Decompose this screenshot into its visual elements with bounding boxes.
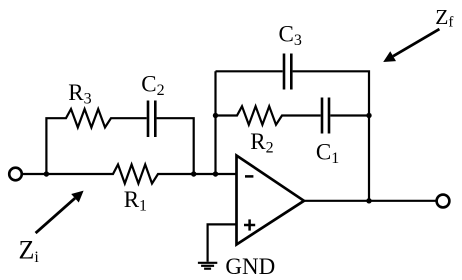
svg-text:C1: C1 xyxy=(316,140,339,168)
svg-text:R3: R3 xyxy=(68,80,91,108)
svg-text:Zi: Zi xyxy=(19,236,40,267)
svg-text:C2: C2 xyxy=(141,71,164,99)
svg-text:Zf: Zf xyxy=(435,5,453,31)
svg-text:GND: GND xyxy=(225,254,275,279)
svg-text:R1: R1 xyxy=(124,187,147,215)
svg-text:C3: C3 xyxy=(279,22,302,50)
svg-text:R2: R2 xyxy=(250,129,273,157)
